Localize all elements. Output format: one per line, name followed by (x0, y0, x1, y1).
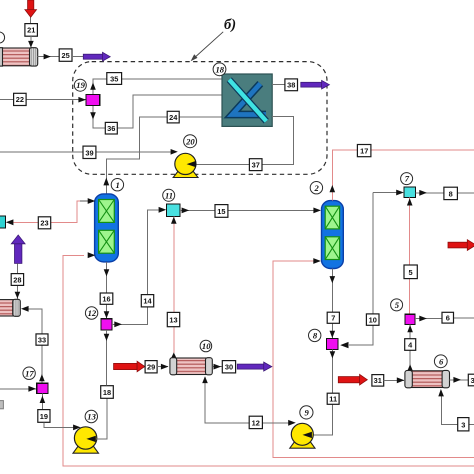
purple product arrow (right of box 38) (301, 80, 330, 89)
circle label 8 (309, 329, 321, 341)
purple product arrow (top left) (83, 52, 110, 61)
splitter square 7 (cyan) (404, 187, 416, 197)
partial circle label at left edge (0, 32, 5, 43)
grey clipped box at left edge (0, 401, 3, 409)
svg-text:28: 28 (13, 275, 21, 284)
stream box 18 (101, 386, 114, 399)
svg-text:13: 13 (169, 316, 177, 325)
svg-text:11: 11 (329, 395, 337, 404)
circle label 12 (85, 307, 97, 319)
circle label 1 (111, 179, 123, 191)
wire: splitter 12 right up through box 14 into mixer 11 (112, 210, 159, 324)
heat exchanger E6 (405, 370, 450, 387)
svg-text:5: 5 (409, 268, 413, 277)
stream box 24 (167, 111, 179, 123)
wire: box 24 left path down into column 1 top (106, 117, 167, 194)
svg-text:5: 5 (395, 300, 400, 310)
column C2 (322, 201, 344, 269)
svg-text:9: 9 (305, 408, 310, 418)
wire: exchanger E6 up through box 4 into splitter 5 (409, 324, 411, 338)
svg-text:19: 19 (76, 80, 85, 90)
stream box 33 (36, 334, 48, 345)
heat exchanger E1 (top left, clipped at edge) (0, 48, 38, 66)
svg-text:16: 16 (102, 295, 110, 304)
wire: box 24 right to plate exchanger (179, 116, 223, 118)
wire: mixer 19 up to box 35 and right to plate exchanger (93, 79, 107, 95)
takeoff square at left edge (cyan) (0, 216, 5, 228)
wire: box 29 into exchanger E10 (157, 366, 168, 368)
svg-text:33: 33 (38, 335, 46, 344)
svg-text:29: 29 (147, 363, 155, 372)
splitter square 12 (magenta) (101, 319, 112, 330)
svg-text:6: 6 (446, 314, 450, 323)
wire: box 3 line up into exchanger E6 bottom (442, 396, 458, 424)
stream box 8 (444, 187, 458, 199)
wire: mixer 8 down through box 11 to pump 9 (313, 349, 332, 435)
circle label 7 (401, 173, 413, 185)
stream box 12 (249, 416, 262, 428)
wire: box 21 to exchanger E top (30, 36, 32, 47)
stream box 39 (83, 146, 96, 158)
svg-text:7: 7 (331, 314, 335, 323)
circle label 9 (300, 406, 313, 419)
stream box 22 (14, 93, 27, 105)
wire: splitter 7 right through box 8 to right edge (416, 192, 444, 194)
splitter square 5 (magenta) (405, 314, 415, 324)
red feed arrow at right edge (top) (448, 240, 474, 251)
svg-text:31: 31 (374, 376, 382, 385)
stream box 13 (167, 312, 179, 326)
svg-text:6: 6 (439, 356, 444, 366)
wire: pink reflux line through box 23 into column 1 upper inlet (14, 201, 83, 223)
stream box 3 (458, 418, 469, 431)
stream box 15 (215, 205, 228, 218)
stream box 37 (249, 159, 262, 171)
heat exchanger E3 (bottom left, clipped at edge) (0, 299, 20, 316)
svg-text:37: 37 (252, 161, 260, 170)
svg-text:8: 8 (313, 331, 318, 341)
wire: box 19 down and right into pump 13 (44, 422, 76, 427)
pump 13 (73, 427, 99, 453)
wire: pink recycle from bottom into column 2 lower inlet (273, 261, 474, 458)
svg-text:8: 8 (449, 190, 453, 199)
purple product arrow (right of box 30) (237, 362, 271, 371)
wire: column 1 bottoms to box 16 to splitter 12 (106, 262, 108, 293)
svg-text:23: 23 (40, 219, 48, 228)
circle label 10 (200, 340, 212, 352)
wire: column 2 overhead red line through box 17 to right edge (332, 150, 474, 201)
mixer square 11 (cyan) (167, 204, 181, 217)
wire: exchanger E10 out right to box 30 (212, 366, 222, 368)
circle label 19 (74, 79, 86, 91)
svg-text:19: 19 (40, 412, 48, 421)
svg-text:18: 18 (216, 64, 225, 74)
red feed arrow into box 31 (338, 374, 367, 385)
circle label 11 (163, 189, 175, 201)
label b) leader arrow (191, 32, 224, 62)
heat exchanger E10 (170, 358, 212, 375)
wire: exchanger E3 right to box 33 to mixer 17 (29, 309, 42, 334)
svg-text:22: 22 (16, 95, 24, 104)
svg-text:25: 25 (61, 51, 69, 60)
wire: exchanger E6 out right to clipped box 32 (450, 379, 469, 381)
stream box 11 (327, 393, 339, 404)
svg-text:39: 39 (85, 148, 93, 157)
mixer square 17 (magenta) (37, 383, 48, 393)
circle label 2 (310, 182, 322, 194)
stream box 25 (59, 49, 72, 61)
svg-text:36: 36 (107, 124, 115, 133)
red feed arrow (top left, pointing down) (25, 0, 37, 17)
circle label 13 (85, 410, 97, 422)
wire: box 25 to purple product arrow (72, 56, 84, 58)
stream box 10 (366, 314, 379, 325)
svg-text:10: 10 (202, 341, 211, 351)
svg-text:35: 35 (110, 74, 118, 83)
stream box 21 (25, 24, 38, 37)
stream box 32 (clipped at right edge) (468, 374, 474, 386)
svg-text:11: 11 (165, 190, 173, 200)
wire: box 18 down and left into pump 13 (95, 397, 107, 439)
wire: splitter 5 right through box 6 to right edge (415, 318, 442, 320)
wire: mixer 19 down to box 36 and right to plate exchanger (93, 105, 105, 128)
stream box 23 (38, 217, 50, 229)
dashed boundary box b (73, 62, 327, 175)
pump 20 (173, 153, 198, 177)
circle label 17 (23, 367, 35, 379)
wire: left edge feed into mixer 17 (0, 388, 36, 390)
stream box 19 (38, 410, 50, 423)
stream box 4 (405, 339, 416, 351)
stream box 17 (357, 145, 371, 157)
circle label 6 (434, 355, 447, 368)
stream box 28 (11, 274, 23, 286)
svg-text:3: 3 (461, 421, 465, 430)
svg-text:2: 2 (314, 183, 320, 193)
plate heat exchanger 18 (teal box with X logo) (222, 74, 272, 126)
wire: splitter 12 down to box 18 (106, 330, 108, 386)
svg-text:12: 12 (252, 418, 260, 427)
wire: plate exchanger to box 38 and purple arrow (272, 84, 285, 86)
wire: box 31 into exchanger E6 (384, 379, 404, 381)
svg-text:20: 20 (185, 136, 195, 146)
svg-text:14: 14 (143, 297, 152, 306)
wire: box 19 up into mixer 17 (41, 394, 43, 410)
column C1 (95, 194, 119, 262)
circle label 18 (213, 63, 226, 76)
stream box 31 (372, 375, 384, 387)
purple vapor arrow (up) above box 28 (11, 235, 25, 263)
wire: mixer 11 right through box 15 into column 2 upper inlet (180, 209, 215, 211)
svg-text:1: 1 (116, 180, 120, 190)
wire: box 12 line from exchanger E10 bottom to pump 9 (205, 377, 292, 423)
pump 9 (290, 423, 315, 448)
svg-text:21: 21 (27, 26, 35, 35)
svg-text:10: 10 (369, 316, 377, 325)
svg-text:18: 18 (103, 388, 111, 397)
wire: plate exchanger bottom out to box 37 to pump 20 (262, 117, 294, 165)
wire: exchanger E1 to box 25 (38, 56, 59, 58)
wire: left edge line through box 39 to pump 20 (0, 151, 83, 153)
svg-text:17: 17 (25, 368, 34, 378)
stream box 35 (107, 73, 122, 85)
stream box 38 (285, 79, 298, 91)
wire: box 28 to exchanger E3 (16, 263, 18, 273)
wire: column 2 bottoms to box 7 to mixer 8 (331, 269, 333, 313)
svg-text:17: 17 (360, 147, 368, 156)
svg-text:13: 13 (87, 412, 96, 422)
svg-text:30: 30 (225, 363, 233, 372)
stream box 5 (404, 265, 417, 279)
circle label 20 (184, 135, 197, 148)
stream box 14 (141, 295, 153, 307)
circle label 5 (391, 299, 403, 311)
stream box 30 (222, 361, 235, 373)
red feed arrow into box 29 (114, 361, 145, 372)
wire: left edge to box 22 to mixer 19 (0, 98, 86, 100)
svg-text:б): б) (224, 17, 236, 33)
wire: box 10 branch line into mixer 8 and up to splitter 7 (349, 193, 373, 346)
svg-text:15: 15 (217, 207, 225, 216)
stream box 36 (105, 122, 117, 134)
wire: exchanger E10 up through box 13 into mixer 11 (pink) (173, 216, 175, 353)
svg-text:12: 12 (88, 308, 97, 318)
wire: feed line into box 21 from top red arrow (30, 16, 32, 24)
svg-text:24: 24 (169, 113, 178, 122)
splitter square 19 (magenta) (86, 94, 100, 105)
mixer square 8 (magenta) (327, 339, 338, 350)
stream box 6 (442, 312, 454, 323)
svg-text:7: 7 (405, 174, 410, 184)
stream box 16 (100, 293, 113, 304)
stream box 29 (145, 361, 157, 373)
svg-text:38: 38 (287, 81, 295, 90)
wire: pink line splitter 5 up to splitter 7 (409, 197, 411, 314)
wire: pink recycle line from bottom into column 1 lower inlet (63, 255, 474, 466)
stream box 7 (327, 312, 339, 323)
